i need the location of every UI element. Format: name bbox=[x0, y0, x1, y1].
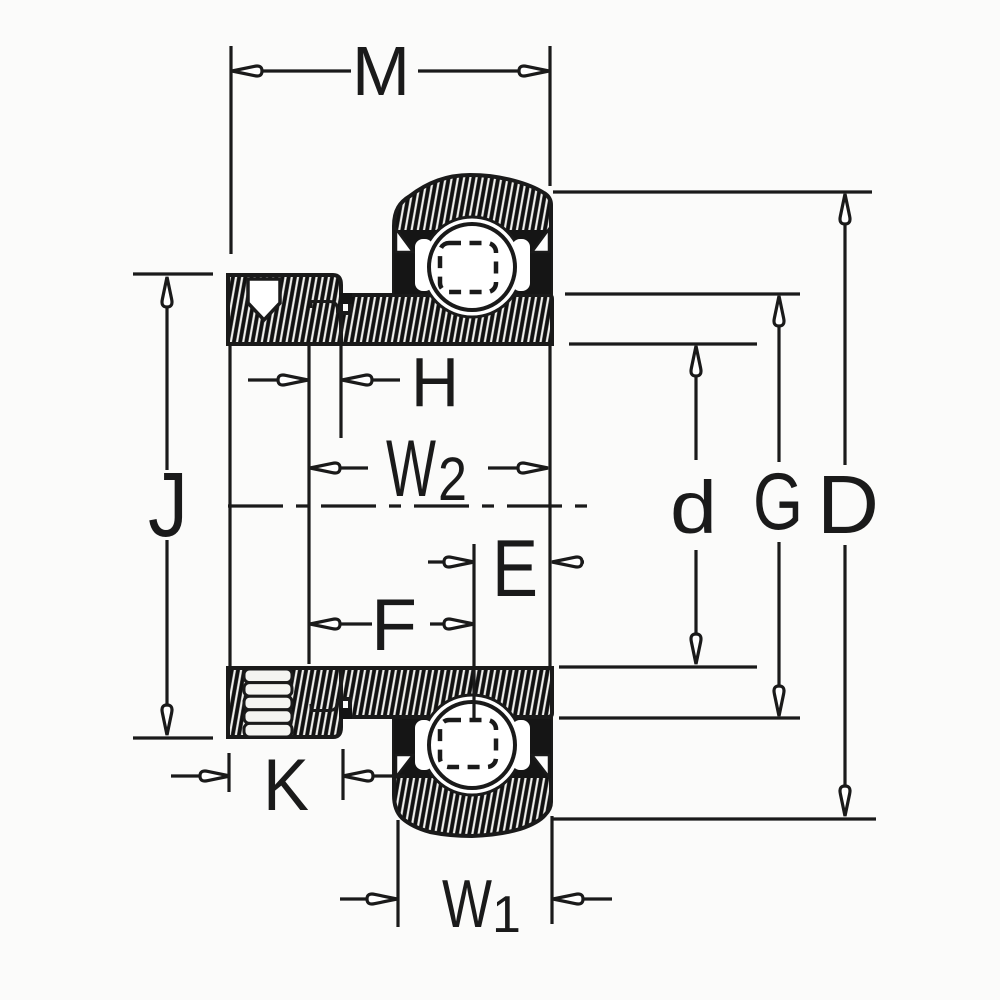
svg-text:K: K bbox=[263, 745, 309, 826]
svg-text:F: F bbox=[371, 585, 417, 666]
svg-text:d: d bbox=[670, 466, 717, 549]
svg-text:W: W bbox=[442, 866, 492, 942]
svg-text:W: W bbox=[386, 424, 436, 514]
svg-text:J: J bbox=[148, 454, 188, 556]
svg-text:M: M bbox=[352, 32, 410, 110]
svg-text:G: G bbox=[753, 457, 803, 547]
svg-text:2: 2 bbox=[438, 445, 467, 513]
svg-text:1: 1 bbox=[492, 886, 521, 944]
svg-text:D: D bbox=[817, 458, 879, 551]
svg-text:E: E bbox=[492, 524, 538, 614]
svg-text:H: H bbox=[411, 343, 459, 421]
